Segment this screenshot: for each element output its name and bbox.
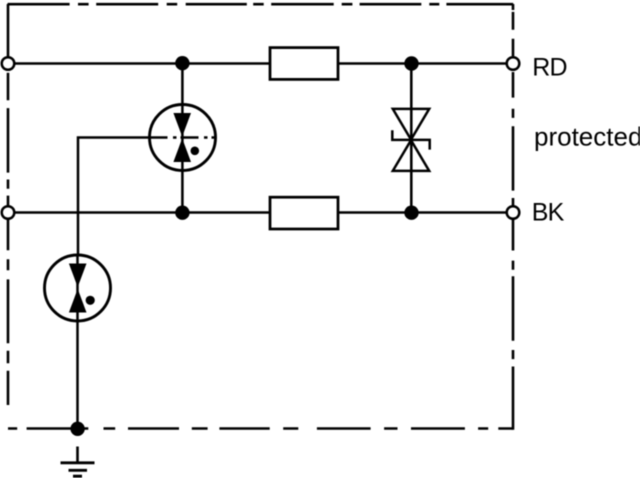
wire earth GDT to ground node	[76, 320, 79, 429]
label protected	[534, 122, 640, 152]
wire RD line (upper conductor)	[8, 62, 513, 65]
svg-text:BK: BK	[532, 199, 565, 227]
enclosure border right (dash-dot)	[512, 4, 515, 430]
terminal unprotected RD (left upper)	[2, 57, 15, 70]
label BK	[532, 199, 565, 227]
terminal protected BK (right lower)	[507, 206, 520, 219]
node RD-TVS junction	[404, 56, 418, 70]
resistor (BK line, decoupling)	[270, 197, 338, 229]
gas discharge tube (3-electrode arrester)	[150, 105, 217, 171]
terminal protected RD (right upper)	[507, 57, 520, 70]
suppressor diode (bidirectional TVS)	[392, 109, 429, 171]
gas discharge tube (earth side, 2-electrode arrester)	[45, 255, 111, 321]
label RD	[532, 54, 566, 82]
svg-text:RD: RD	[532, 54, 566, 82]
node earth junction on enclosure border	[70, 422, 84, 436]
wire suppressor diode branch (vertical, RD to BK)	[410, 64, 413, 213]
wire GDT center electrode to earth branch	[78, 138, 150, 257]
node BK-GDT junction	[175, 206, 189, 220]
terminal unprotected BK (left lower)	[2, 206, 15, 219]
node BK-TVS junction	[404, 206, 418, 220]
node RD-GDT junction	[175, 56, 189, 70]
enclosure border bottom (dash-dot)	[8, 427, 513, 430]
resistor (RD line, decoupling)	[270, 48, 338, 80]
enclosure border left (dash-dot)	[7, 4, 10, 405]
wire gas discharge tube branch (vertical, RD to BK)	[181, 64, 184, 213]
wire BK line (lower conductor)	[8, 211, 513, 214]
ground	[61, 447, 95, 477]
enclosure border top (dash-dot)	[8, 3, 514, 6]
svg-text:protected: protected	[534, 122, 640, 152]
